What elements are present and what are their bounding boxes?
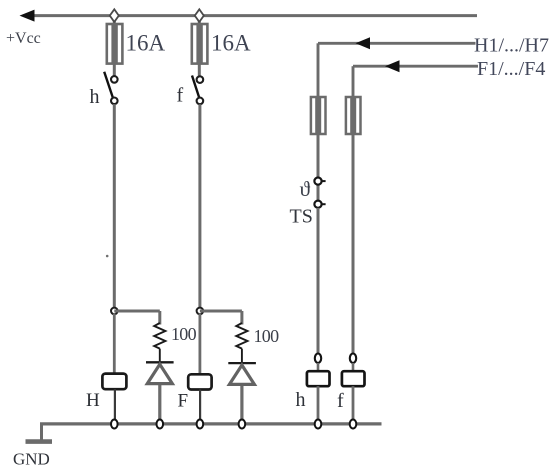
svg-text:ϑ: ϑ xyxy=(300,177,311,201)
svg-text:16A: 16A xyxy=(211,31,251,56)
svg-text:16A: 16A xyxy=(126,31,166,56)
svg-text:f: f xyxy=(177,85,184,107)
svg-text:F: F xyxy=(178,391,189,412)
svg-text:+Vcc: +Vcc xyxy=(6,30,41,47)
svg-text:100: 100 xyxy=(171,324,197,344)
svg-text:GND: GND xyxy=(13,450,50,469)
svg-text:TS: TS xyxy=(290,206,313,228)
svg-text:f: f xyxy=(337,390,344,412)
svg-text:h: h xyxy=(90,86,100,108)
svg-text:100: 100 xyxy=(254,326,280,346)
svg-text:H1/.../H7: H1/.../H7 xyxy=(474,35,549,57)
svg-text:h: h xyxy=(296,389,306,411)
svg-text:F1/.../F4: F1/.../F4 xyxy=(477,58,545,80)
svg-text:H: H xyxy=(86,390,100,411)
